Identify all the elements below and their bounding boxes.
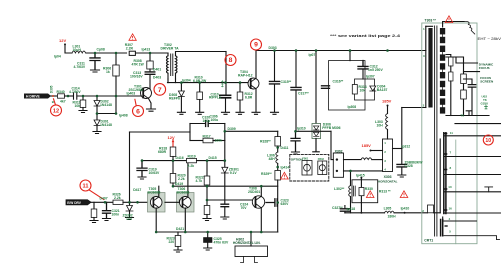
wire X302 pin2 to X303 pin4 bbox=[344, 170, 383, 172]
ground C319 bbox=[138, 177, 146, 179]
svg-text:BA157: BA157 bbox=[377, 88, 388, 92]
loop C320/R317 left vertical bbox=[189, 124, 191, 141]
wire X303 to C326 node bbox=[393, 148, 402, 150]
callout 7 bbox=[154, 84, 166, 96]
frame CRT inner divider bbox=[455, 140, 457, 244]
transistor T301 bbox=[141, 88, 152, 99]
ground D308 bbox=[177, 112, 185, 114]
svg-text:2SD401: 2SD401 bbox=[248, 190, 260, 194]
svg-text:2.2k: 2.2k bbox=[114, 196, 121, 200]
svg-text:9.1V: 9.1V bbox=[230, 171, 238, 175]
transformer T303 HV secondary bbox=[443, 22, 464, 28]
wire pin10 line bbox=[445, 191, 501, 193]
wire pin8 line bbox=[445, 174, 501, 176]
svg-text:HORIZONTAL LIN.: HORIZONTAL LIN. bbox=[233, 241, 261, 245]
ground R323 bbox=[174, 250, 182, 252]
svg-text:9: 9 bbox=[254, 42, 258, 49]
diode D302 bbox=[96, 96, 98, 101]
ground C321 bbox=[103, 219, 111, 221]
wire R330 bottom to rail bbox=[360, 203, 362, 213]
wire drive row bbox=[173, 185, 278, 187]
svg-text:H DRIVE: H DRIVE bbox=[26, 95, 40, 99]
connector E/W DRV bbox=[66, 200, 91, 205]
resistor focus pot lower bbox=[449, 72, 453, 81]
svg-text:C316**: C316** bbox=[333, 80, 344, 84]
wire R330 top bbox=[360, 178, 362, 203]
wire T308 collector bbox=[260, 186, 262, 196]
capacitor C311 bbox=[90, 53, 100, 70]
svg-text:BC868B: BC868B bbox=[177, 191, 191, 195]
ferrite FB01 bbox=[302, 161, 312, 176]
ground divider bbox=[466, 111, 472, 116]
capacitor C326 bbox=[397, 164, 407, 167]
zener ZD302 bbox=[129, 202, 131, 205]
inductor L305 bbox=[385, 211, 395, 213]
ground R312 bbox=[236, 112, 244, 114]
transistor T306 bbox=[177, 193, 195, 213]
wire T305 collector bbox=[158, 186, 160, 197]
svg-text:2.2k: 2.2k bbox=[178, 177, 185, 181]
svg-text:G25V: G25V bbox=[481, 101, 489, 105]
svg-text:4k7: 4k7 bbox=[60, 100, 66, 104]
resistor R340 bbox=[58, 94, 65, 98]
resistor R322 bbox=[206, 161, 208, 176]
wire T304 collector to rail9 bbox=[256, 51, 426, 79]
transformer T303 primary winding bbox=[428, 28, 432, 108]
pin number group bbox=[302, 27, 488, 234]
wire screen out bbox=[464, 71, 480, 73]
svg-text:10/63V: 10/63V bbox=[149, 171, 160, 175]
wire feedback column join bbox=[129, 132, 131, 202]
wire mid rail bbox=[142, 160, 187, 162]
frame CRT green box bbox=[422, 23, 477, 244]
svg-text:R340: R340 bbox=[57, 90, 65, 94]
wire vertical R306 branch bbox=[115, 53, 117, 65]
ground T301 bbox=[147, 109, 156, 111]
wire R340 to C314 bbox=[65, 95, 74, 97]
svg-text:D303: D303 bbox=[269, 46, 277, 50]
svg-text:100n: 100n bbox=[112, 213, 120, 217]
resistor R323 bbox=[177, 232, 179, 236]
connector X302 bbox=[333, 153, 343, 177]
svg-text:Ip310: Ip310 bbox=[297, 126, 306, 130]
wire bottom rail bbox=[156, 208, 278, 232]
svg-text:HORIZONTAL: HORIZONTAL bbox=[378, 179, 398, 183]
callout 9 bbox=[251, 39, 262, 50]
svg-text:C328: C328 bbox=[405, 164, 413, 168]
capacitor C327 bbox=[340, 209, 349, 211]
capacitor C317 branch bbox=[295, 51, 297, 88]
wire T306 base link bbox=[165, 200, 180, 202]
svg-text:SCREEN: SCREEN bbox=[480, 79, 494, 83]
svg-text:100/16V: 100/16V bbox=[130, 75, 143, 79]
ground C310 bbox=[222, 112, 230, 114]
svg-text:REFP6: REFP6 bbox=[169, 96, 180, 100]
svg-text:100k: 100k bbox=[215, 139, 223, 143]
wire D306 branch bbox=[315, 51, 317, 124]
resistor RF1 bbox=[461, 74, 467, 84]
inductor L302 bbox=[349, 186, 351, 197]
value label group bbox=[50, 43, 424, 244]
svg-text:10uH: 10uH bbox=[73, 48, 82, 52]
wire C314 to diodes bbox=[78, 95, 141, 97]
svg-text:PFFB M306: PFFB M306 bbox=[322, 126, 340, 130]
svg-text:12V: 12V bbox=[168, 135, 175, 140]
svg-text:D305: D305 bbox=[50, 85, 54, 93]
ground R321 bbox=[203, 219, 211, 221]
wire pin7 line bbox=[445, 156, 501, 158]
callout 6 bbox=[133, 106, 144, 117]
svg-text:48H: 48H bbox=[269, 157, 276, 161]
svg-text:470n 63V: 470n 63V bbox=[214, 240, 229, 244]
capacitor C310 bbox=[220, 95, 231, 98]
wire R307 to T302 bbox=[136, 52, 169, 54]
node red tap bbox=[51, 39, 494, 200]
inductor L303 bbox=[386, 114, 388, 130]
svg-text:R313 **: R313 ** bbox=[379, 189, 391, 193]
svg-text:2.2R: 2.2R bbox=[126, 46, 134, 50]
capacitor C323gnd bbox=[291, 131, 300, 151]
svg-text:4.7k: 4.7k bbox=[196, 179, 203, 183]
diode D304 bbox=[370, 86, 376, 91]
svg-text:D416: D416 bbox=[176, 156, 184, 160]
wire aux pin4 bbox=[444, 220, 477, 222]
svg-text:10: 10 bbox=[448, 185, 452, 189]
svg-text:FOCUS: FOCUS bbox=[479, 66, 490, 70]
svg-text:D401: D401 bbox=[153, 68, 161, 72]
svg-text:Ip410: Ip410 bbox=[401, 207, 410, 211]
wire bottom rail right bbox=[345, 212, 385, 214]
capacitor C312 inner top bbox=[358, 61, 368, 69]
resistor R307 bbox=[129, 51, 135, 55]
resistor R329 bbox=[275, 171, 281, 181]
ground R325 bbox=[90, 221, 98, 223]
wire C313 to T301 bbox=[149, 75, 151, 89]
ferrite FB02 bbox=[318, 161, 327, 175]
svg-text:Ip403: Ip403 bbox=[127, 92, 136, 96]
box R330 bbox=[352, 180, 378, 203]
svg-text:1k: 1k bbox=[106, 70, 110, 74]
wire 185V node bbox=[387, 106, 389, 114]
ground ZD302 bbox=[126, 218, 134, 220]
wire heater line bbox=[445, 135, 501, 137]
resistor R320 bbox=[172, 161, 174, 174]
ground C325 bbox=[204, 248, 212, 250]
transistor T308 bbox=[252, 196, 264, 208]
transistor T305 bbox=[148, 193, 166, 213]
inductor L301 bbox=[72, 51, 86, 53]
svg-text:10V: 10V bbox=[126, 217, 133, 221]
wire R306 to base node bbox=[115, 76, 117, 96]
resistor R325 bbox=[93, 202, 95, 209]
resistor R311 bbox=[82, 96, 84, 100]
svg-text:R329**: R329** bbox=[261, 172, 272, 176]
svg-text:Ip418: Ip418 bbox=[347, 207, 356, 211]
capacitor C322 bbox=[221, 204, 229, 207]
resistor R308 bbox=[147, 61, 153, 69]
wire 12V stub bbox=[65, 45, 72, 53]
wire feedback to dashed area bbox=[225, 130, 278, 132]
ground T304 bbox=[252, 112, 260, 114]
capacitor C319 bbox=[137, 161, 147, 177]
wire T308 emitter bbox=[260, 208, 262, 232]
ground R311 bbox=[79, 111, 87, 113]
resistor R312 bbox=[239, 83, 241, 92]
svg-text:D419: D419 bbox=[175, 182, 183, 186]
svg-text:6: 6 bbox=[136, 108, 140, 115]
svg-text:E/W DRV: E/W DRV bbox=[67, 201, 81, 205]
svg-text:10k: 10k bbox=[360, 88, 366, 92]
wire T306 collector bbox=[187, 161, 189, 197]
zener ZD301 bbox=[221, 167, 228, 173]
svg-text:100p: 100p bbox=[203, 119, 211, 123]
diode ticks in HV secondary bbox=[442, 33, 444, 107]
ground D301 bbox=[93, 132, 101, 134]
ground C315 bbox=[271, 112, 279, 114]
connector X301 H-DRIVE bbox=[24, 94, 58, 99]
wire top corner down bbox=[225, 52, 227, 95]
connector X303 bbox=[383, 139, 393, 172]
resistor R330 bbox=[359, 188, 364, 196]
svg-text:D309: D309 bbox=[228, 127, 236, 131]
capacitor C315 branch bbox=[274, 51, 276, 82]
ground C322 bbox=[221, 217, 229, 219]
capacitor C321 bbox=[103, 202, 111, 218]
svg-text:D417: D417 bbox=[133, 188, 141, 192]
ground C326 bbox=[398, 175, 406, 177]
transformer T303 core bbox=[435, 26, 437, 236]
svg-text:12: 12 bbox=[53, 108, 59, 114]
wire T301 collector branch bbox=[149, 53, 151, 61]
capacitor C314 bbox=[74, 93, 77, 99]
svg-text:10k: 10k bbox=[75, 104, 81, 108]
transformer T303 lower winding bbox=[444, 133, 446, 214]
warning triangle R329 bbox=[281, 172, 289, 179]
svg-text:D407: D407 bbox=[100, 197, 108, 201]
svg-text:Ip304: Ip304 bbox=[182, 78, 191, 82]
svg-text:*** see variant list page 2-4: *** see variant list page 2-4 bbox=[330, 33, 401, 38]
wire feedback feed bbox=[130, 131, 191, 133]
svg-text:T303 **: T303 ** bbox=[425, 19, 437, 23]
wire corner to X302 bbox=[331, 131, 333, 159]
svg-text:Ip413: Ip413 bbox=[142, 47, 151, 51]
svg-text:L302**: L302** bbox=[334, 187, 345, 191]
svg-text:47R 1W: 47R 1W bbox=[132, 62, 145, 66]
svg-text:RIPPLE: RIPPLE bbox=[209, 96, 222, 100]
transformer T302 windings bbox=[167, 53, 169, 79]
dashed option box bbox=[290, 154, 329, 181]
capacitor C325 bbox=[207, 232, 209, 238]
transformer T302 core bbox=[171, 54, 173, 76]
resistor R328 bbox=[275, 137, 281, 147]
resistor focus pot upper bbox=[446, 55, 451, 58]
resistor RF2 bbox=[461, 90, 467, 99]
wire G1 line bbox=[455, 123, 501, 125]
svg-text:Ip07: Ip07 bbox=[309, 53, 316, 57]
svg-text:BC868B: BC868B bbox=[148, 191, 162, 195]
wire primary bottom bbox=[402, 107, 426, 109]
diode D301 bbox=[94, 120, 100, 126]
svg-text:EHT ~ 28kV: EHT ~ 28kV bbox=[478, 37, 501, 41]
pin ticks bbox=[445, 134, 447, 211]
svg-text:6.8R: 6.8R bbox=[245, 95, 253, 99]
svg-text:R317: R317 bbox=[203, 134, 211, 138]
svg-text:12V: 12V bbox=[59, 38, 66, 43]
capacitor on box left edge bbox=[322, 86, 330, 89]
diode D308 bbox=[180, 83, 182, 91]
wire T302 secondary bottom rail bbox=[168, 82, 249, 84]
resistor R319 bbox=[187, 158, 197, 162]
svg-text:CRT1: CRT1 bbox=[424, 238, 433, 242]
svg-text:185V: 185V bbox=[382, 99, 392, 104]
svg-text:220: 220 bbox=[169, 240, 175, 244]
svg-text:D415: D415 bbox=[209, 156, 217, 160]
svg-text:4.7/50V: 4.7/50V bbox=[69, 90, 81, 94]
svg-text:D403: D403 bbox=[153, 76, 161, 80]
inductor L307 bbox=[361, 158, 372, 160]
svg-text:16: 16 bbox=[449, 207, 453, 211]
svg-text:1N4148: 1N4148 bbox=[100, 123, 112, 127]
transformer T303 aux winding bbox=[441, 220, 443, 236]
callout 12 bbox=[51, 105, 62, 116]
warning triangle R330 bbox=[366, 191, 374, 198]
capacitor C320 bbox=[206, 121, 209, 127]
svg-text:100u: 100u bbox=[211, 118, 219, 122]
resistor R314 bbox=[352, 85, 357, 95]
wire C326 column bbox=[401, 108, 403, 165]
warning triangle R307 bbox=[129, 16, 453, 198]
symbol green tie bbox=[221, 80, 488, 109]
svg-text:C315**: C315** bbox=[281, 80, 292, 84]
coil H302 bbox=[250, 232, 252, 246]
svg-text:Ip312: Ip312 bbox=[402, 144, 411, 148]
svg-text:7: 7 bbox=[158, 87, 162, 94]
wire divider bottom bbox=[446, 115, 489, 117]
header label group bbox=[233, 19, 494, 245]
wire rail to box bbox=[349, 51, 351, 61]
node p418 bbox=[360, 212, 362, 214]
svg-text:4.7/63V: 4.7/63V bbox=[74, 65, 86, 69]
wire diode tap to node bbox=[97, 96, 116, 114]
svg-text:1n5 250V: 1n5 250V bbox=[368, 68, 383, 72]
svg-text:X302: X302 bbox=[335, 149, 343, 153]
svg-text:L305: L305 bbox=[384, 207, 392, 211]
wire loop bottom bbox=[190, 140, 203, 142]
ground C311 bbox=[91, 70, 100, 72]
svg-text:1N4148: 1N4148 bbox=[100, 103, 112, 107]
svg-text:FB02: FB02 bbox=[318, 158, 325, 161]
wire R308 to C313 bbox=[149, 69, 151, 72]
svg-text:T8: T8 bbox=[461, 113, 465, 117]
wire pin16 line bbox=[445, 212, 501, 214]
wire X302 pin1 to X303 pin3 bbox=[344, 159, 362, 161]
wire 12V2 arrow bbox=[172, 140, 174, 148]
callout 8 bbox=[225, 55, 236, 66]
svg-text:D421: D421 bbox=[176, 227, 184, 231]
warning triangle X303 bbox=[400, 191, 408, 198]
core L302 bbox=[354, 186, 356, 196]
svg-text:R330: R330 bbox=[365, 187, 373, 191]
resistor R317 bbox=[203, 138, 213, 143]
wire 12V rail to R307 bbox=[86, 52, 127, 54]
resistor R310 bbox=[199, 83, 201, 92]
wire 185V feed pin2 bbox=[371, 150, 383, 152]
wire loop top bbox=[190, 123, 225, 125]
node p410 bbox=[404, 212, 406, 214]
svg-text:180H: 180H bbox=[388, 215, 397, 219]
wire C323 junction bbox=[296, 130, 332, 132]
capacitor pinline bbox=[485, 187, 493, 192]
diode pack D306 bbox=[312, 124, 321, 139]
svg-text:DRIVER TA: DRIVER TA bbox=[161, 47, 180, 51]
svg-text:10: 10 bbox=[485, 138, 491, 144]
svg-text:Ip307: Ip307 bbox=[366, 74, 375, 78]
svg-text:8: 8 bbox=[229, 57, 233, 64]
transistor T304 bbox=[248, 78, 259, 89]
inner box bbox=[355, 79, 375, 100]
svg-text:11: 11 bbox=[83, 184, 89, 190]
svg-text:Ip414: Ip414 bbox=[281, 165, 290, 169]
resistor R306 bbox=[113, 65, 119, 76]
focus divider chain bbox=[446, 57, 464, 116]
wire E/W main bbox=[91, 201, 113, 203]
svg-text:C327**: C327** bbox=[332, 206, 343, 210]
transformer T303 primary wire bbox=[425, 26, 427, 107]
svg-text:Ip04: Ip04 bbox=[54, 55, 61, 59]
supply 12V label bbox=[59, 38, 392, 148]
wire loop right column bbox=[224, 124, 226, 168]
wire H-drive main bbox=[50, 95, 58, 97]
resistor R318 bbox=[170, 147, 176, 157]
svg-text:680R: 680R bbox=[158, 150, 167, 154]
wire T308 base bbox=[207, 199, 252, 201]
svg-text:R328**: R328** bbox=[260, 139, 271, 143]
svg-text:Cp08: Cp08 bbox=[97, 47, 105, 51]
svg-text:2.2k: 2.2k bbox=[188, 164, 195, 168]
wire aux pin5 bbox=[444, 236, 500, 240]
resistor R321 bbox=[206, 200, 208, 206]
callout 10 bbox=[483, 135, 493, 145]
svg-text:Ip408: Ip408 bbox=[119, 113, 128, 117]
warning triangle T303 bbox=[445, 16, 453, 23]
svg-text:FB01: FB01 bbox=[302, 158, 309, 161]
wire focus out bbox=[456, 57, 478, 63]
svg-text:70V: 70V bbox=[241, 206, 248, 210]
resistor R326 bbox=[113, 200, 123, 204]
svg-text:11: 11 bbox=[450, 131, 454, 135]
capacitor C327h bbox=[266, 199, 277, 206]
callout 11 bbox=[80, 180, 91, 191]
svg-text:10H: 10H bbox=[377, 123, 384, 127]
svg-text:RAP-H12: RAP-H12 bbox=[238, 73, 253, 77]
svg-text:R319: R319 bbox=[188, 155, 196, 159]
svg-text:C317**: C317** bbox=[298, 91, 309, 95]
svg-text:630V: 630V bbox=[281, 202, 290, 206]
svg-text:185V: 185V bbox=[362, 143, 372, 148]
inductor L306 bbox=[276, 152, 278, 163]
svg-text:Ip415: Ip415 bbox=[356, 173, 365, 177]
wire L302 column bbox=[350, 171, 352, 186]
spark gap EHT bbox=[464, 22, 475, 35]
svg-text:Ip308: Ip308 bbox=[348, 105, 357, 109]
ground C323g bbox=[292, 152, 300, 154]
link component to T303 bbox=[428, 205, 434, 213]
wire T304 emitter bbox=[255, 89, 257, 112]
ground R310 bbox=[196, 112, 204, 114]
assembly box C318 bbox=[329, 61, 366, 110]
wire T301 emitter bbox=[149, 99, 152, 109]
capacitor C313 bbox=[145, 72, 155, 74]
